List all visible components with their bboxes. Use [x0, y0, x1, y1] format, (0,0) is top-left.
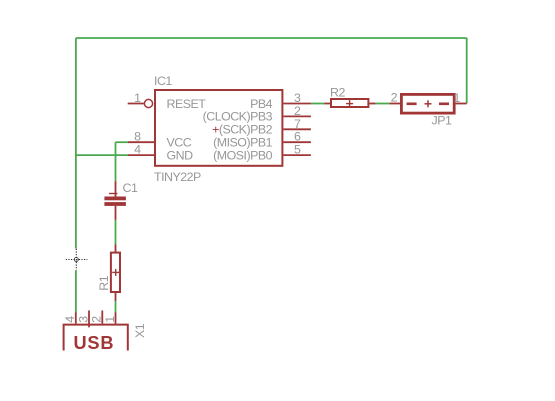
svg-text:2: 2 [391, 91, 398, 105]
svg-text:(MOSI)PB0: (MOSI)PB0 [213, 148, 272, 162]
svg-text:RESET: RESET [167, 97, 207, 111]
svg-text:TINY22P: TINY22P [154, 170, 201, 184]
svg-text:JP1: JP1 [432, 114, 452, 128]
svg-text:3: 3 [294, 91, 301, 105]
svg-text:2: 2 [294, 104, 301, 118]
svg-text:8: 8 [134, 130, 141, 144]
svg-text:1: 1 [454, 91, 461, 105]
svg-text:GND: GND [167, 148, 194, 162]
svg-text:C1: C1 [123, 181, 138, 195]
svg-text:(CLOCK)PB3: (CLOCK)PB3 [203, 110, 273, 124]
svg-text:6: 6 [294, 130, 301, 144]
svg-text:3: 3 [76, 316, 90, 323]
svg-text:PB4: PB4 [250, 97, 273, 111]
svg-text:1: 1 [134, 91, 141, 105]
svg-text:USB: USB [74, 333, 115, 353]
svg-text:2: 2 [90, 316, 104, 323]
svg-text:R1: R1 [97, 275, 111, 290]
svg-text:5: 5 [294, 143, 301, 157]
svg-text:IC1: IC1 [154, 74, 172, 88]
svg-text:X1: X1 [133, 323, 147, 338]
svg-text:R2: R2 [330, 85, 345, 99]
svg-text:(MISO)PB1: (MISO)PB1 [213, 136, 272, 150]
svg-text:7: 7 [294, 117, 301, 131]
svg-text:VCC: VCC [167, 136, 192, 150]
svg-text:1: 1 [103, 316, 117, 323]
svg-text:4: 4 [134, 143, 141, 157]
svg-text:+(SCK)PB2: +(SCK)PB2 [212, 123, 273, 137]
svg-text:4: 4 [63, 316, 77, 323]
